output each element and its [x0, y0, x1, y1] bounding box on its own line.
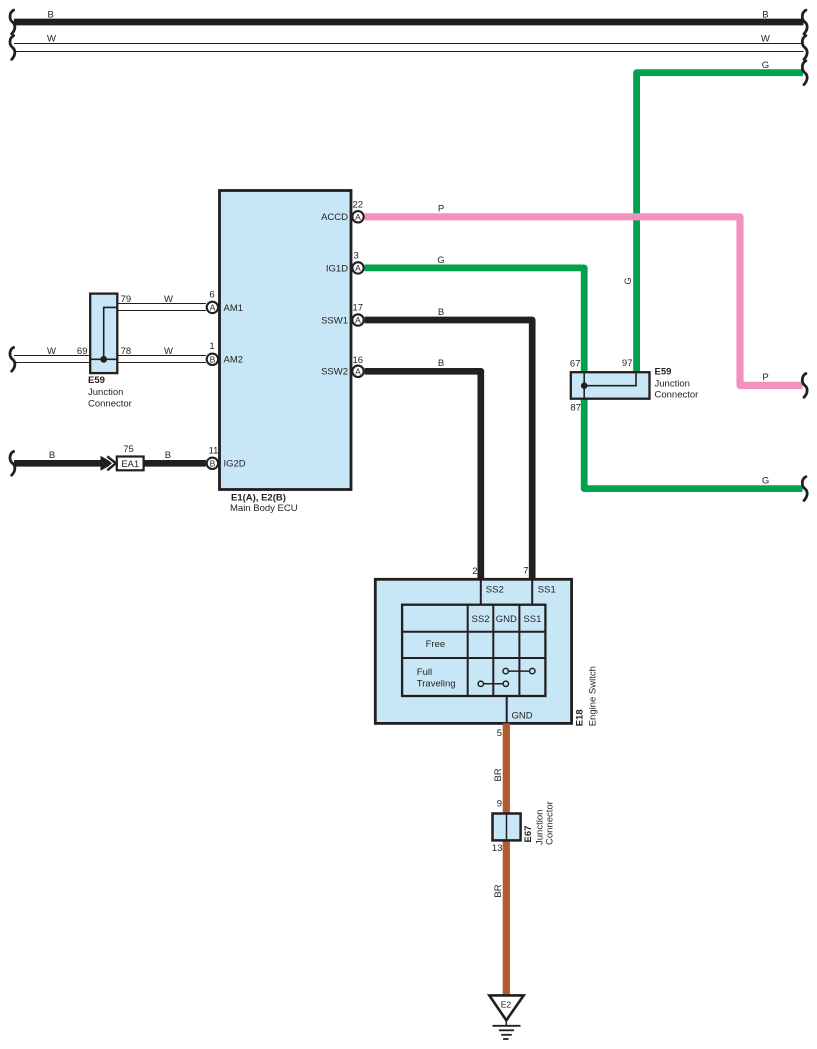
- continuation squiggle B left: [10, 10, 15, 34]
- svg-text:Connector: Connector: [655, 390, 699, 401]
- svg-text:IG2D: IG2D: [224, 459, 246, 470]
- svg-text:Main Body ECU: Main Body ECU: [230, 503, 298, 514]
- continuation squiggle G top right: [802, 61, 807, 85]
- continuation squiggle G lower right: [802, 477, 807, 501]
- svg-text:BR: BR: [493, 884, 504, 897]
- svg-text:1: 1: [209, 341, 214, 352]
- svg-text:W: W: [164, 294, 173, 305]
- svg-text:Connector: Connector: [88, 398, 132, 409]
- wire B from SSW2 pin to engine switch pin 2: [365, 358, 481, 581]
- svg-text:6: 6: [209, 290, 214, 301]
- ground E2: [489, 995, 523, 1039]
- shield arrow into EA1: [101, 456, 116, 472]
- svg-text:B: B: [48, 10, 54, 21]
- pin 11 IG2D: [207, 446, 246, 470]
- svg-text:B: B: [438, 358, 444, 369]
- svg-text:AM2: AM2: [224, 355, 244, 366]
- svg-text:E18: E18: [575, 709, 586, 726]
- svg-text:Connector: Connector: [544, 801, 555, 845]
- wire B from SSW1 pin to engine switch pin 7: [365, 307, 533, 581]
- svg-text:B: B: [165, 450, 171, 461]
- svg-text:SS1: SS1: [538, 584, 556, 595]
- pin 1 AM2: [207, 341, 243, 366]
- svg-text:B: B: [210, 458, 216, 468]
- svg-text:A: A: [355, 366, 361, 376]
- svg-text:Engine Switch: Engine Switch: [587, 666, 598, 726]
- svg-text:SSW2: SSW2: [321, 367, 348, 378]
- continuation squiggle B IG2D left: [10, 451, 15, 475]
- continuation squiggle W left: [10, 36, 15, 60]
- svg-text:5: 5: [497, 728, 502, 739]
- wire BR from GND pin 5 to ground: [493, 723, 507, 995]
- svg-text:Traveling: Traveling: [417, 679, 456, 690]
- svg-text:Full: Full: [417, 667, 432, 678]
- switch contacts SS2-GND: [478, 681, 508, 686]
- wire G top: horizontal then long vertical down to E59 junction pin 97: [623, 60, 803, 374]
- svg-text:Junction: Junction: [655, 378, 690, 389]
- svg-text:B: B: [438, 307, 444, 318]
- svg-text:Junction: Junction: [88, 387, 123, 398]
- svg-text:E1(A), E2(B): E1(A), E2(B): [231, 493, 286, 504]
- svg-text:B: B: [49, 450, 55, 461]
- junction connector E67: [492, 799, 555, 855]
- svg-text:P: P: [438, 204, 444, 215]
- svg-text:2: 2: [472, 566, 477, 577]
- svg-text:A: A: [355, 263, 361, 273]
- svg-text:W: W: [47, 33, 56, 44]
- connector EA1: [117, 444, 144, 471]
- svg-text:W: W: [47, 346, 56, 357]
- svg-text:W: W: [761, 33, 770, 44]
- continuation squiggle B right: [802, 10, 807, 34]
- continuation squiggle P right: [802, 374, 807, 398]
- pin 6 AM1: [207, 290, 243, 314]
- svg-text:G: G: [762, 60, 769, 71]
- wire P: from ACCD pin right, down, to right edge: [365, 204, 803, 386]
- svg-text:75: 75: [123, 444, 134, 455]
- junction connector E59 right: [570, 358, 698, 413]
- junction connector E59 left: [88, 294, 132, 410]
- svg-text:SS1: SS1: [523, 614, 541, 625]
- pin 17 SSW1: [321, 303, 364, 327]
- pin 22 ACCD: [321, 199, 364, 223]
- svg-text:3: 3: [354, 250, 359, 261]
- svg-text:SSW1: SSW1: [321, 315, 348, 326]
- svg-text:A: A: [355, 212, 361, 222]
- continuation squiggle W right: [802, 36, 807, 60]
- engine switch inner table: [402, 605, 545, 696]
- svg-text:G: G: [437, 255, 444, 266]
- svg-text:E2: E2: [501, 999, 512, 1009]
- svg-text:11: 11: [209, 446, 219, 457]
- svg-text:17: 17: [353, 303, 364, 314]
- svg-text:W: W: [164, 346, 173, 357]
- pin 3 IG1D: [326, 250, 364, 274]
- pin 16 SSW2: [321, 355, 364, 378]
- svg-text:IG1D: IG1D: [326, 263, 348, 274]
- svg-text:Free: Free: [426, 639, 446, 650]
- svg-text:67: 67: [570, 359, 581, 370]
- wire B IG2D from left edge through EA1 to IG2D pin: [14, 450, 206, 463]
- svg-text:AM1: AM1: [224, 303, 244, 314]
- svg-text:7: 7: [523, 566, 528, 577]
- wire B top horizontal: [14, 10, 804, 23]
- svg-text:87: 87: [570, 402, 581, 413]
- svg-text:GND: GND: [512, 710, 533, 721]
- svg-text:E59: E59: [655, 367, 672, 378]
- svg-text:78: 78: [121, 346, 132, 357]
- svg-text:ACCD: ACCD: [321, 212, 348, 223]
- svg-text:69: 69: [77, 346, 88, 357]
- svg-text:SS2: SS2: [486, 584, 504, 595]
- svg-text:EA1: EA1: [121, 459, 139, 470]
- svg-text:B: B: [762, 10, 768, 21]
- svg-text:B: B: [210, 354, 216, 364]
- svg-text:E59: E59: [88, 375, 105, 386]
- svg-text:16: 16: [353, 355, 364, 366]
- svg-text:P: P: [762, 372, 768, 383]
- switch contacts GND-SS1: [503, 668, 535, 673]
- wire W top horizontal: [14, 33, 804, 51]
- svg-text:G: G: [623, 277, 634, 284]
- svg-text:A: A: [355, 315, 361, 325]
- GND stub inside switch: [497, 696, 533, 739]
- svg-text:E67: E67: [523, 826, 534, 843]
- svg-text:BR: BR: [493, 768, 504, 781]
- engine switch block E18: [375, 566, 571, 724]
- svg-text:G: G: [762, 475, 769, 486]
- wire W AM1 from E59 left connector to AM1 pin: [117, 294, 206, 310]
- svg-text:A: A: [210, 303, 216, 313]
- wire W AM2 from left edge through E59 left connector to AM2 pin: [14, 346, 206, 362]
- wire G from IG1D pin to E59 junction pin 67: [365, 255, 585, 374]
- E18 engine switch label: [575, 666, 599, 726]
- svg-text:97: 97: [622, 358, 633, 369]
- wire G from E59 junction pin 87 down then right to edge: [584, 397, 802, 489]
- svg-text:9: 9: [497, 799, 502, 810]
- svg-text:79: 79: [121, 294, 132, 305]
- continuation squiggle W AM2 left: [10, 347, 15, 371]
- svg-text:13: 13: [492, 843, 503, 854]
- svg-text:GND: GND: [496, 614, 517, 625]
- svg-text:22: 22: [353, 199, 364, 210]
- svg-text:SS2: SS2: [472, 614, 490, 625]
- main body ECU block: [220, 191, 352, 515]
